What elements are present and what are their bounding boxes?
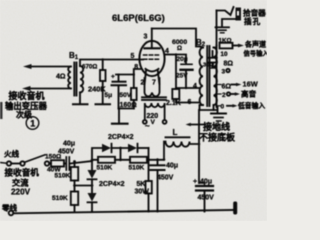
- svg-text:510K: 510K: [55, 173, 71, 180]
- svg-text:各声道: 各声道: [244, 40, 266, 49]
- svg-text:信号输入: 信号输入: [244, 49, 268, 58]
- svg-text:接地线: 接地线: [203, 121, 230, 132]
- svg-text:16W: 16W: [243, 80, 258, 89]
- svg-text:670Ω: 670Ω: [82, 64, 97, 71]
- svg-text:6Ω: 6Ω: [222, 84, 232, 91]
- svg-text:Ω: Ω: [177, 45, 182, 52]
- svg-text:10: 10: [221, 51, 229, 58]
- svg-text:30Ω: 30Ω: [203, 63, 214, 69]
- svg-text:40μ: 40μ: [200, 179, 212, 186]
- svg-text:5: 5: [131, 53, 135, 60]
- svg-text:拾音器: 拾音器: [243, 8, 266, 18]
- svg-text:8Ω: 8Ω: [224, 61, 234, 68]
- svg-text:火线: 火线: [4, 149, 19, 159]
- svg-text:低音输入: 低音输入: [237, 101, 265, 110]
- svg-text:6: 6: [188, 99, 192, 106]
- svg-text:2CP4×2: 2CP4×2: [108, 134, 134, 141]
- svg-text:3: 3: [144, 34, 148, 41]
- svg-text:2.1K: 2.1K: [166, 100, 181, 107]
- svg-text:8: 8: [134, 64, 138, 71]
- svg-text:160Ω: 160Ω: [120, 102, 138, 109]
- svg-text:2CP4×2: 2CP4×2: [99, 181, 125, 188]
- svg-text:0: 0: [221, 104, 225, 111]
- svg-text:L: L: [173, 128, 178, 137]
- svg-text:接收音机: 接收音机: [9, 90, 45, 101]
- svg-text:6L6P(6L6G): 6L6P(6L6G): [112, 13, 165, 24]
- svg-text:插孔: 插孔: [244, 16, 261, 26]
- svg-text:2: 2: [222, 92, 226, 99]
- svg-text:交流: 交流: [12, 178, 29, 188]
- svg-text:510K: 510K: [97, 165, 113, 172]
- svg-text:4: 4: [193, 83, 197, 90]
- svg-text:5K: 5K: [137, 181, 146, 188]
- svg-text:~: ~: [145, 122, 150, 131]
- svg-text:接收音机: 接收音机: [5, 167, 40, 178]
- svg-text:30W: 30W: [135, 189, 150, 196]
- svg-text:50V: 50V: [120, 92, 132, 99]
- svg-text:4: 4: [165, 48, 169, 55]
- svg-text:450V: 450V: [198, 195, 215, 202]
- svg-text:+: +: [111, 74, 115, 81]
- svg-text:V: V: [151, 119, 156, 126]
- svg-text:510K: 510K: [52, 195, 68, 202]
- svg-text:25V: 25V: [176, 73, 188, 80]
- svg-text:20μ: 20μ: [177, 56, 188, 63]
- svg-text:4Ω: 4Ω: [56, 74, 66, 81]
- svg-text:3: 3: [222, 69, 226, 76]
- svg-text:5μ: 5μ: [105, 92, 113, 99]
- svg-text:450V: 450V: [157, 175, 174, 182]
- svg-text:高音: 高音: [241, 89, 257, 99]
- svg-text:不接底板: 不接底板: [199, 132, 236, 143]
- svg-text:1: 1: [30, 119, 35, 129]
- svg-text:40μ: 40μ: [166, 163, 178, 170]
- svg-text:510K: 510K: [129, 165, 145, 172]
- svg-text:220V: 220V: [11, 188, 31, 197]
- svg-text:450V: 450V: [58, 149, 75, 156]
- svg-text:输出变压器: 输出变压器: [5, 101, 47, 111]
- svg-text:7: 7: [152, 80, 156, 87]
- svg-text:+: +: [193, 179, 197, 186]
- svg-text:40μ: 40μ: [63, 141, 75, 148]
